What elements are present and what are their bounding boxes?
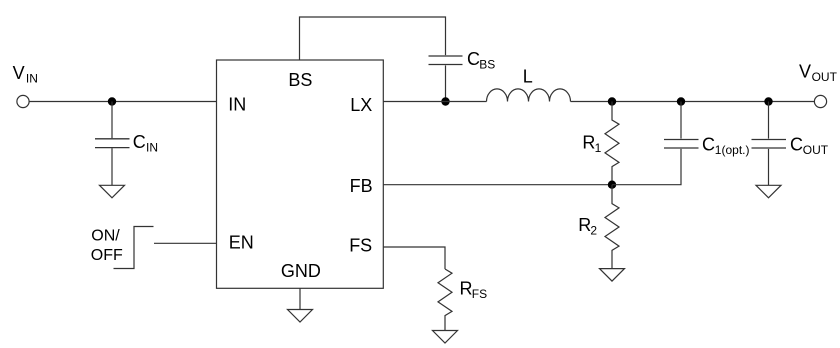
ground below GND pin (288, 310, 313, 323)
wire LX pin to inductor (383, 101, 486, 103)
pin label LX (350, 95, 372, 115)
capacitor C1 (664, 140, 699, 149)
svg-text:IN: IN (26, 72, 38, 86)
wire BS net (BS pin to CBS top) (300, 17, 446, 60)
svg-text:OUT: OUT (803, 143, 829, 157)
capacitor C_IN (95, 102, 130, 186)
inductor L (487, 89, 571, 102)
svg-text:OFF: OFF (91, 247, 123, 264)
terminal VIN (17, 95, 29, 107)
wire VIN to IN pin (29, 101, 217, 103)
pin label FB (350, 176, 373, 196)
junction output node at C1 (677, 97, 685, 105)
wire inductor to VOUT (571, 101, 815, 103)
pin label BS (288, 70, 312, 90)
pin label GND (281, 261, 321, 281)
ground below COUT (756, 185, 781, 198)
resistor R2 (605, 185, 619, 269)
junction feedback node (608, 181, 616, 189)
svg-text:L: L (523, 67, 533, 87)
wire FS net (FS pin to RFS) (383, 247, 445, 269)
svg-text:FS: FS (349, 235, 372, 255)
svg-text:R: R (578, 215, 591, 235)
IC U1 buck regulator body (217, 60, 384, 288)
capacitor CBS value label (467, 49, 495, 72)
svg-text:V: V (13, 63, 25, 83)
svg-text:1: 1 (595, 141, 602, 155)
svg-text:BS: BS (288, 70, 312, 90)
node VIN label (13, 63, 38, 86)
inductor L value label (523, 67, 533, 87)
ON/OFF signal name label (91, 228, 123, 265)
svg-text:C: C (133, 132, 146, 152)
capacitor COUT (752, 102, 787, 186)
node VOUT label (799, 62, 838, 85)
resistor R1 value label (582, 132, 601, 155)
resistor R1 (605, 102, 619, 185)
ON/OFF step symbol (114, 227, 154, 269)
svg-text:GND: GND (281, 261, 321, 281)
capacitor C1 value label (702, 135, 749, 158)
capacitor C_BS (429, 56, 463, 102)
wire GND pin to ground (299, 288, 301, 309)
pin label IN (228, 94, 246, 114)
resistor R2 value label (578, 215, 597, 238)
svg-text:LX: LX (350, 95, 372, 115)
svg-text:1(opt.): 1(opt.) (715, 143, 750, 157)
resistor RFS value label (460, 279, 488, 302)
wire EN input (154, 242, 217, 244)
capacitor COUT value label (790, 135, 829, 158)
wire FB pin to feedback node (383, 184, 612, 186)
junction output node at COUT (764, 97, 772, 105)
wire output node to C1 top (680, 102, 682, 139)
pin label EN (229, 233, 254, 253)
resistor RFS (438, 269, 452, 331)
svg-text:BS: BS (479, 58, 495, 72)
svg-text:FB: FB (350, 176, 373, 196)
ground below RFS (433, 331, 458, 344)
svg-text:EN: EN (229, 233, 254, 253)
svg-text:V: V (799, 62, 811, 82)
ground below CIN (100, 185, 125, 198)
svg-text:C: C (790, 135, 803, 155)
svg-text:C: C (467, 49, 480, 69)
capacitor CIN value label (133, 132, 158, 155)
svg-text:OUT: OUT (812, 70, 838, 84)
svg-text:R: R (460, 279, 473, 299)
svg-text:C: C (702, 135, 715, 155)
svg-text:FS: FS (472, 287, 487, 301)
svg-text:R: R (582, 132, 595, 152)
svg-text:ON/: ON/ (91, 228, 120, 245)
junction output node at R1 (608, 97, 616, 105)
svg-text:IN: IN (228, 94, 246, 114)
wire feedback node to C1 bottom (612, 149, 681, 185)
ground below R2 (600, 269, 625, 282)
terminal VOUT (814, 95, 826, 107)
junction LX/CBS node (441, 97, 449, 105)
pin label FS (349, 235, 372, 255)
svg-text:2: 2 (590, 224, 597, 238)
svg-text:IN: IN (146, 141, 158, 155)
junction node CIN (108, 97, 116, 105)
